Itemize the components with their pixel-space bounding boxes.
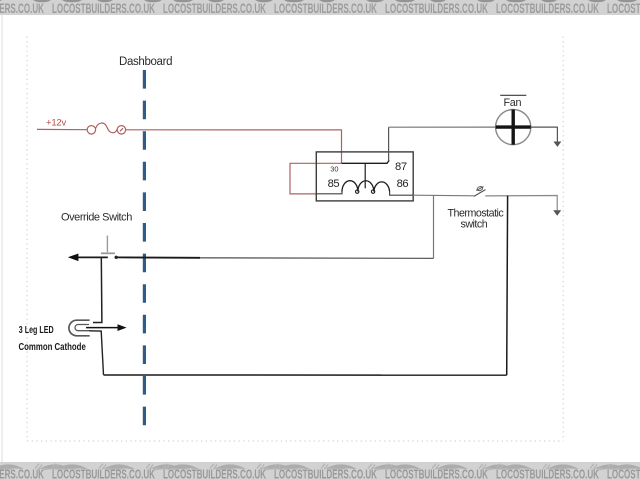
wire override switch left stub (78, 256, 108, 258)
wire red loop to relay pin85 (290, 163, 342, 194)
svg-text:Thermostatic: Thermostatic (448, 207, 505, 219)
svg-text:+12v: +12v (46, 118, 67, 129)
svg-text:30: 30 (330, 165, 338, 174)
relay pin87 lead to fan wire (388, 127, 390, 160)
svg-text:switch: switch (461, 219, 488, 231)
ground arrow 1 (553, 142, 561, 147)
wire override junction down to LED anode (93, 257, 102, 322)
bottom return wire (104, 374, 507, 376)
wire relay 86 to thermostatic switch (413, 194, 474, 197)
svg-text:86: 86 (397, 178, 409, 190)
thermostatic switch S2 blade (474, 190, 486, 197)
wire fan to ground (531, 127, 558, 142)
svg-text:Fan: Fan (504, 97, 522, 109)
thermostatic switch bulb symbol (476, 186, 483, 191)
LED D1 inner dome (75, 325, 89, 331)
relay pin86 lead (390, 192, 414, 196)
page left edge line (1, 15, 3, 462)
relay contact bar 30-87 (342, 160, 390, 163)
override switch terminal dot (115, 256, 118, 259)
arrow to dashboard (left) (68, 254, 79, 262)
LED cathode leg to bottom return (89, 331, 104, 375)
dotted slide border (27, 37, 563, 442)
relay coil (342, 181, 390, 192)
watermark band top (0, 0, 640, 16)
LED middle leg arrow (to dashboard) (86, 327, 118, 329)
override feed wire (to arrow) (200, 257, 434, 260)
svg-text:Dashboard: Dashboard (119, 56, 172, 68)
watermark band bottom (0, 462, 640, 480)
wire thermostatic switch to ground (485, 196, 557, 211)
fuse F1 (87, 123, 125, 134)
relay K1 box (316, 152, 413, 201)
fan motor symbol (496, 110, 531, 145)
dashboard divider dashed line (143, 70, 146, 426)
wire junction down from relay feed (433, 195, 435, 258)
Fan label overline (500, 94, 526, 96)
wire fuse to relay pin30 (red) (126, 130, 342, 164)
LED D1 body (69, 320, 90, 336)
svg-text:87: 87 (395, 161, 407, 173)
wire thermostat junction down to bottom return (506, 196, 509, 375)
svg-text:85: 85 (328, 178, 340, 190)
wire +12v to fuse (red) (37, 128, 87, 130)
wire relay to fan (389, 126, 496, 128)
svg-text:Common Cathode: Common Cathode (19, 342, 87, 353)
svg-text:Override Switch: Override Switch (61, 211, 132, 223)
relay pin85 lead (316, 192, 342, 194)
ground arrow 2 (553, 210, 561, 215)
relay armature link to coil (364, 163, 366, 188)
override switch S1 actuator (106, 236, 108, 253)
svg-text:3 Leg LED: 3 Leg LED (19, 325, 54, 336)
